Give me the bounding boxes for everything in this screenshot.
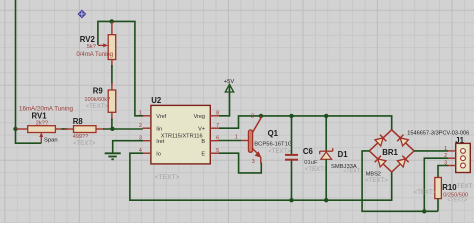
wire: C6 bottom — [291, 161, 293, 201]
resistor R10 — [435, 178, 442, 212]
wire: input net left vertical — [15, 0, 17, 143]
svg-text:BR1: BR1 — [382, 148, 398, 157]
op-amp U2 XTR115 body — [151, 105, 210, 163]
potentiometer RV2 — [98, 21, 116, 68]
svg-text:Q1: Q1 — [268, 129, 279, 138]
wire: J1 pin 3 to R10 — [438, 166, 448, 179]
svg-text:<TEXT>: <TEXT> — [305, 167, 328, 173]
svg-text:1: 1 — [444, 146, 447, 152]
svg-text:R10: R10 — [442, 183, 457, 192]
svg-text:7: 7 — [216, 123, 219, 129]
svg-text:XTR115/XTR116: XTR115/XTR116 — [161, 134, 203, 140]
svg-text:<TEXT>: <TEXT> — [73, 141, 96, 147]
wire: BR1 AC left to loop return — [362, 151, 438, 211]
svg-text:5k?: 5k? — [87, 44, 96, 50]
svg-text:Iret: Iret — [156, 139, 164, 145]
node: D1 ground junction — [324, 198, 328, 202]
node: C6 ground junction — [289, 198, 293, 202]
node: RV2 top junction — [110, 19, 114, 23]
svg-text:<TEXT>: <TEXT> — [86, 104, 109, 110]
svg-text:2: 2 — [139, 123, 142, 129]
node: origin marker — [78, 10, 87, 19]
svg-text:RV1: RV1 — [32, 111, 48, 120]
U2 pin 8 Vreg — [194, 111, 220, 120]
svg-text:U2: U2 — [151, 96, 162, 105]
node: D1 top junction — [324, 114, 328, 118]
svg-text:Vref: Vref — [156, 114, 166, 120]
svg-text:Io: Io — [156, 151, 161, 157]
svg-text:J1: J1 — [455, 136, 464, 145]
svg-text:Vreg: Vreg — [194, 114, 205, 120]
node: C6 top junction — [289, 114, 293, 118]
svg-text:1546657-3/3PCV-03-006: 1546657-3/3PCV-03-006 — [407, 131, 469, 137]
svg-text:B: B — [201, 139, 205, 145]
svg-text:1: 1 — [139, 111, 142, 117]
wire: Vref top horizontal — [98, 21, 144, 115]
wire: V+ rail to BR1 — [219, 116, 392, 131]
svg-text:3: 3 — [252, 159, 255, 165]
svg-text:8: 8 — [216, 111, 219, 117]
U2 pin 5 E — [201, 148, 219, 157]
connector J1 — [444, 143, 470, 172]
node: RV1 left terminal junction — [13, 127, 17, 131]
svg-text:TEXT: TEXT — [457, 184, 473, 190]
resistor R9 — [108, 82, 116, 121]
power +5V — [224, 79, 235, 92]
svg-text:2k??: 2k?? — [36, 121, 48, 127]
svg-text:BCP56-16T1G: BCP56-16T1G — [254, 141, 293, 147]
svg-text:0/4mA Tuning: 0/4mA Tuning — [76, 52, 113, 58]
potentiometer RV1 — [17, 126, 65, 144]
wire: BR1 AC right to J1 pin 1 — [414, 150, 448, 152]
svg-text:R9: R9 — [93, 86, 104, 95]
wire: D1 bottom — [325, 159, 327, 200]
diode D1 zener — [320, 148, 333, 159]
capacitor C6 — [285, 154, 298, 161]
node: Q1 collector junction — [259, 114, 263, 118]
svg-text:2: 2 — [251, 114, 254, 120]
svg-text:16mA/20mA Tuning: 16mA/20mA Tuning — [19, 105, 74, 112]
svg-text:R8: R8 — [73, 117, 84, 126]
U2 pin 4 Io — [139, 148, 161, 157]
wire: RV1 to R8 — [62, 128, 68, 130]
svg-text:C6: C6 — [303, 147, 314, 156]
wire: Io to ground rail — [130, 153, 392, 200]
svg-text:100k/60k?: 100k/60k? — [84, 97, 110, 103]
U2 pin 7 V+ — [198, 123, 219, 132]
svg-text:5: 5 — [216, 148, 219, 154]
svg-text:RV2: RV2 — [80, 35, 96, 44]
wire: bottom jog to RV1 wiper — [15, 142, 42, 144]
U2 pin 2 Iin — [139, 123, 162, 132]
wire: R9 to Iin junction — [111, 119, 113, 130]
U2 pin 3 Iret — [139, 136, 165, 145]
U2 pin 1 Vref — [139, 111, 167, 120]
node: Iin junction — [110, 127, 114, 131]
svg-text:01uF: 01uF — [304, 160, 318, 166]
svg-text:<TEXT>: <TEXT> — [366, 178, 389, 184]
svg-text:D1: D1 — [338, 150, 349, 159]
wire: B pin to Q1 base — [219, 140, 241, 142]
node: J1 pin2 junction — [422, 209, 426, 213]
wire: Iret to ground — [113, 141, 143, 153]
svg-text:<TEXT>: <TEXT> — [447, 198, 467, 204]
svg-text:+5V: +5V — [224, 79, 235, 85]
svg-text:499??: 499?? — [73, 134, 89, 140]
wire: J1 pin 2 to loop return — [424, 158, 448, 211]
wire: D1 top — [325, 116, 327, 151]
U2 pin 6 B — [201, 136, 219, 145]
wire: R8 to U2 pin 2 — [103, 128, 143, 130]
wire: Vreg to +5V — [219, 86, 230, 116]
svg-text:<TEXT>: <TEXT> — [155, 174, 180, 181]
svg-text:6: 6 — [216, 136, 219, 142]
wire: RV2 to R9 — [111, 65, 113, 84]
transistor Q1 BCP56 — [235, 114, 261, 166]
resistor R8 — [65, 126, 105, 133]
svg-text:<TEXT>: <TEXT> — [414, 190, 437, 196]
svg-text:Span: Span — [44, 138, 58, 144]
svg-text:V+: V+ — [198, 126, 205, 132]
svg-text:MBS2: MBS2 — [366, 171, 381, 177]
svg-text:E: E — [201, 151, 205, 157]
wire: C6 top — [291, 116, 293, 154]
wire: E pin to Q1 emitter — [219, 153, 261, 173]
bridge rectifier BR1 — [369, 130, 414, 172]
svg-text:<TEXT>: <TEXT> — [343, 168, 363, 174]
svg-text:1: 1 — [235, 135, 238, 141]
ground — [105, 153, 121, 159]
svg-text:Iin: Iin — [156, 126, 162, 132]
